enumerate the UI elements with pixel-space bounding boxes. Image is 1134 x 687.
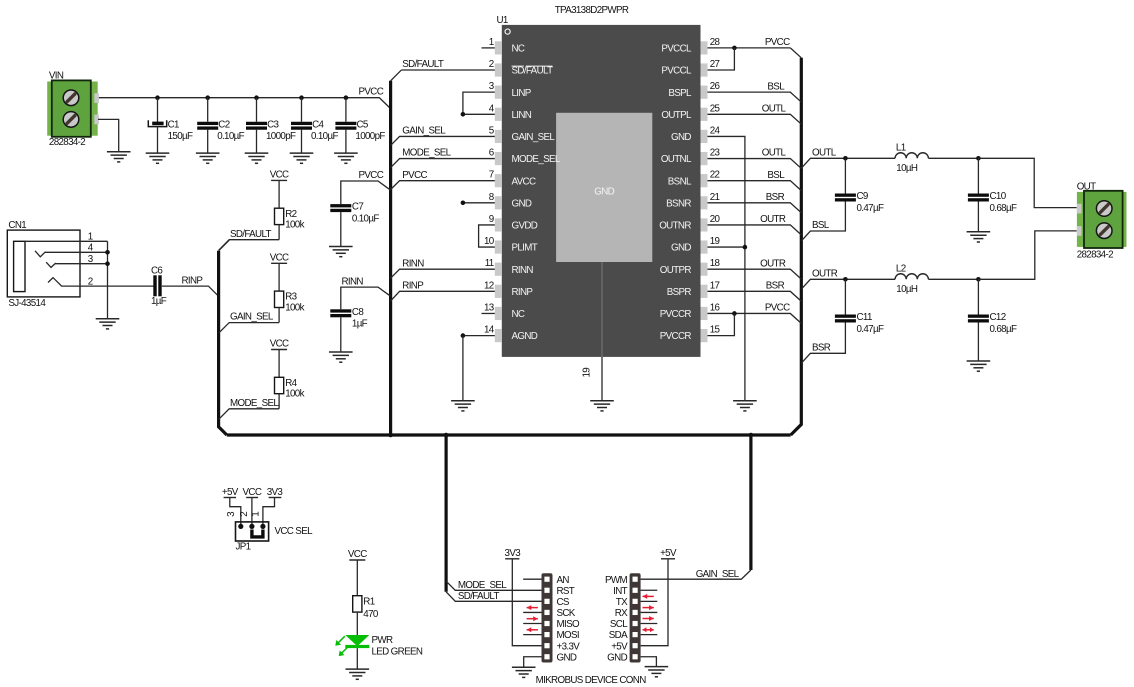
connector CN1 audio jack body (7, 230, 80, 297)
ground (right header) (645, 667, 669, 677)
svg-text:22: 22 (710, 170, 720, 181)
svg-text:VCC: VCC (270, 339, 289, 350)
capacitor C4 (291, 122, 312, 130)
wire GND pin8 (463, 202, 495, 204)
svg-text:C5: C5 (357, 119, 369, 130)
svg-text:C4: C4 (312, 119, 324, 130)
svg-text:OUTNL: OUTNL (661, 154, 692, 165)
U1 pin numbers (484, 37, 721, 336)
node pin8 junction (461, 201, 466, 206)
svg-text:3: 3 (489, 81, 495, 92)
svg-text:NC: NC (512, 309, 525, 320)
svg-text:8: 8 (489, 192, 495, 203)
C8 lower leg (340, 317, 342, 352)
R2 lower leg (278, 225, 280, 240)
wire PVCC pin16 to right bus (708, 313, 802, 323)
bus tap diagonal to PVCC pin28 (790, 48, 801, 58)
svg-text:R4: R4 (285, 378, 297, 389)
arrow TX (out) (643, 605, 654, 610)
connector OUT terminal block (1077, 191, 1127, 248)
svg-text:SD/FAULT: SD/FAULT (230, 229, 272, 240)
wire RINP from C6 to left bus (162, 286, 218, 296)
wire GAIN_SEL to left bus (219, 323, 280, 334)
node pin4 junction (461, 112, 466, 117)
resistor R3 100k (275, 291, 284, 307)
ground (LED) (346, 669, 370, 679)
svg-text:BSL: BSL (812, 220, 830, 231)
U1 pin13 NC stub wire (482, 312, 495, 314)
svg-text:C8: C8 (352, 307, 364, 318)
svg-text:10: 10 (484, 236, 495, 247)
svg-text:GND: GND (594, 187, 614, 198)
svg-text:PVCCL: PVCCL (661, 66, 692, 77)
svg-text:RX: RX (615, 608, 628, 619)
capacitor C12 0.68uF (968, 315, 989, 323)
svg-text:C3: C3 (267, 119, 279, 130)
svg-text:1: 1 (251, 512, 262, 517)
capacitor C5 (335, 122, 356, 130)
svg-text:GAIN_SEL: GAIN_SEL (402, 126, 446, 137)
U1 pad pin 19 wire (601, 262, 603, 401)
svg-text:OUTL: OUTL (762, 103, 787, 114)
svg-text:1000pF: 1000pF (266, 131, 296, 142)
svg-text:4: 4 (489, 103, 495, 114)
wire SD/FAULT to pin 2 (401, 69, 495, 71)
svg-text:1: 1 (489, 37, 494, 48)
svg-text:2: 2 (239, 512, 250, 517)
C7 labels (352, 202, 379, 225)
op-amp U1 body (502, 25, 701, 357)
svg-text:0.47µF: 0.47µF (857, 324, 884, 335)
power VCC (R4) (270, 339, 289, 350)
svg-text:19: 19 (582, 368, 593, 378)
node CN1 pins 4,3 junctions (105, 250, 110, 266)
svg-text:GND: GND (557, 652, 577, 663)
power +5V (JP1) (222, 487, 239, 498)
arrow MOSI (in) (527, 627, 538, 632)
svg-text:PVCC: PVCC (359, 170, 384, 181)
svg-text:MODE_SEL: MODE_SEL (230, 398, 279, 409)
VCC stem (R2) (278, 180, 280, 208)
svg-text:RINP: RINP (402, 280, 424, 291)
bus (middle vertical) (389, 81, 392, 435)
wire SDA stub (641, 634, 658, 636)
resistor R4 100k (275, 377, 284, 393)
svg-text:28: 28 (710, 37, 721, 48)
svg-text:12: 12 (484, 280, 494, 291)
C1 labels (168, 119, 193, 142)
svg-text:2: 2 (88, 277, 93, 288)
C5 labels (355, 119, 385, 142)
C9 labels (857, 191, 884, 214)
svg-text:BSPL: BSPL (668, 88, 692, 99)
wire left header GND to ground (524, 657, 542, 667)
svg-text:GND: GND (607, 652, 627, 663)
wire MISO stub (523, 623, 541, 625)
svg-text:BSR: BSR (766, 192, 785, 203)
capacitor C3 (246, 122, 267, 130)
capacitor C1 (electrolytic) (148, 98, 166, 153)
bus (bottom horizontal) (227, 433, 791, 436)
connector mikrobus left header (542, 573, 553, 662)
U1 pin1 NC stub wire (482, 47, 495, 49)
svg-text:BSNR: BSNR (666, 198, 691, 209)
svg-text:23: 23 (710, 148, 721, 159)
R3 lower leg (278, 308, 280, 323)
C12 labels (990, 312, 1017, 335)
R1 labels (363, 597, 379, 620)
svg-text:15: 15 (710, 325, 721, 336)
svg-text:C7: C7 (352, 202, 363, 213)
svg-text:NC: NC (512, 44, 525, 55)
wire SCL stub (641, 623, 658, 625)
svg-text:10µH: 10µH (896, 163, 918, 174)
svg-text:LED GREEN: LED GREEN (372, 647, 423, 658)
wire GND pin19 down to ground (708, 247, 745, 401)
svg-text:BSNL: BSNL (668, 176, 692, 187)
svg-text:BSPR: BSPR (667, 287, 692, 298)
svg-text:RINN: RINN (512, 265, 534, 276)
svg-text:MODE_SEL: MODE_SEL (458, 580, 507, 591)
svg-text:470: 470 (363, 609, 379, 620)
ground (C4) (290, 153, 314, 163)
svg-text:OUTPL: OUTPL (661, 110, 692, 121)
bus (right vertical) (791, 58, 802, 435)
CN1 pin 3 contact and wire (46, 262, 107, 267)
node pin28 junction (732, 46, 737, 51)
svg-text:100k: 100k (285, 302, 304, 313)
wire TX stub (641, 600, 658, 602)
svg-text:0.10µF: 0.10µF (217, 131, 244, 142)
CN1 pin 4 contact and wire (35, 251, 108, 257)
svg-text:19: 19 (710, 236, 720, 247)
wire PVCC from C7 to middle bus (341, 181, 391, 204)
wire LIN/GND vertical to ground (462, 336, 464, 401)
inductor L1 10uH (895, 153, 928, 159)
wire SD/FAULT to header CS (446, 592, 541, 602)
ground (VIN pin2) (107, 152, 131, 162)
svg-text:3: 3 (226, 511, 237, 517)
svg-text:R2: R2 (285, 209, 296, 220)
svg-text:AN: AN (557, 575, 570, 586)
svg-text:OUTR: OUTR (760, 214, 786, 225)
svg-text:R3: R3 (285, 292, 297, 303)
ground (C10) (967, 232, 991, 242)
JP1 jumper shunt (252, 530, 263, 537)
svg-text:+5V: +5V (222, 487, 239, 498)
svg-text:25: 25 (710, 103, 721, 114)
wire LINP pin3 to gnd line (463, 92, 495, 114)
U1 pin1 indicator circle (505, 29, 510, 34)
svg-text:C10: C10 (990, 191, 1007, 202)
capacitor C12 upper leg (977, 279, 979, 314)
capacitor C3 legs (256, 98, 258, 153)
wire OUTR from right bus through L2 to C12 (801, 279, 978, 289)
LED labels (372, 635, 423, 658)
capacitor C11 0.47uF (835, 315, 856, 323)
wire pin15 loop to pin16 (708, 313, 735, 335)
svg-text:14: 14 (484, 325, 495, 336)
arrow MISO (out) (527, 616, 538, 621)
svg-text:OUTL: OUTL (762, 148, 787, 159)
wire MODE_SEL to left bus (219, 409, 280, 420)
L1 labels (896, 143, 918, 175)
svg-text:INT: INT (613, 586, 627, 597)
CN1 pin 2 contact and wire to C6 (48, 278, 154, 287)
svg-text:VIN: VIN (49, 70, 64, 81)
svg-text:AGND: AGND (512, 331, 538, 342)
wire BSR from right bus to C11 (801, 323, 845, 364)
svg-text:26: 26 (710, 81, 721, 92)
wire BSR pin17 to right bus (708, 291, 802, 301)
svg-text:9: 9 (489, 214, 494, 225)
connector mikrobus right header (630, 573, 641, 662)
wire 3V3 to +3.3V pin (512, 559, 541, 646)
wire GAIN_SEL to header PWM (641, 570, 751, 579)
wire BSL from right bus to C9 (801, 202, 845, 241)
svg-text:100k: 100k (285, 220, 304, 231)
C7 lower leg (340, 212, 342, 246)
svg-text:MODE_SEL: MODE_SEL (512, 154, 561, 165)
node pin19 junction (743, 245, 748, 250)
wire PVCC to pin 7 (AVCC) (391, 181, 495, 190)
VIN pin2 ground wire (98, 119, 119, 151)
svg-text:+5V: +5V (660, 548, 677, 559)
wire +5V to header (641, 559, 668, 646)
JP1 pin dots (238, 524, 265, 529)
wire OUTL pin23 to right bus (708, 159, 802, 169)
svg-text:+5V: +5V (611, 641, 628, 652)
ground (C3) (245, 153, 269, 163)
U1 pin stubs (495, 41, 708, 342)
capacitor C6 (153, 275, 161, 296)
C10 lower leg (977, 202, 979, 232)
ground (C2) (196, 153, 220, 163)
svg-text:21: 21 (710, 192, 720, 203)
wire OUTL pin25 to right bus (708, 114, 802, 124)
svg-text:BSL: BSL (767, 170, 785, 181)
CN1 pin numbers (88, 232, 94, 288)
svg-text:RINN: RINN (402, 258, 424, 269)
power +5V (header) (660, 548, 677, 559)
svg-text:1µF: 1µF (352, 319, 368, 330)
svg-text:C1: C1 (168, 119, 179, 130)
inductor L2 10uH (895, 274, 928, 280)
svg-text:BSR: BSR (812, 342, 831, 353)
VIN power rail wire (98, 98, 391, 109)
capacitor C10 upper leg (977, 158, 979, 193)
svg-text:17: 17 (710, 280, 720, 291)
wire AGND pin14 (463, 335, 495, 337)
capacitor C5 legs (345, 98, 347, 153)
svg-text:R1: R1 (363, 597, 374, 608)
svg-text:PVCCL: PVCCL (661, 44, 692, 55)
C11 labels (857, 312, 884, 335)
wire OUTR pin18 to right bus (708, 269, 802, 279)
svg-text:OUTPR: OUTPR (660, 265, 692, 276)
wire JP1 pin1 to 3V3 (263, 498, 275, 527)
R1 upper leg (356, 560, 358, 596)
svg-text:SCL: SCL (610, 619, 628, 630)
LED cathode wire (356, 648, 358, 669)
svg-text:SD/FAULT: SD/FAULT (458, 591, 500, 602)
wire OUTR to OUT terminal pin2 (978, 231, 1076, 279)
node OUTL junctions (843, 156, 981, 161)
wire RINN to pin 11 (391, 269, 495, 278)
wire MODE_SEL to header RST (446, 581, 541, 590)
svg-text:VCC: VCC (270, 253, 289, 264)
LED PWR (green) (335, 635, 369, 656)
ground (U1 pins 24,19) (733, 401, 757, 411)
svg-text:1µF: 1µF (151, 296, 167, 307)
arrow INT (in) (643, 594, 654, 599)
svg-text:VCC: VCC (348, 549, 367, 560)
capacitor C9 0.47uF (835, 194, 856, 202)
wire AN stub (523, 578, 541, 580)
R3 labels (285, 292, 304, 314)
R4 lower leg (278, 394, 280, 409)
bus tap diagonal to SD/FAULT (219, 240, 230, 251)
capacitor C10 0.68uF (968, 194, 989, 202)
wire pin27 loop to pin28 (708, 48, 735, 70)
svg-text:0.68µF: 0.68µF (990, 203, 1017, 214)
JP1 pin numbers (rotated) (226, 511, 261, 517)
svg-text:PVCC: PVCC (402, 170, 427, 181)
ground (C8) (329, 352, 353, 362)
svg-text:0.47µF: 0.47µF (857, 203, 884, 214)
ground (U1 pad) (590, 401, 614, 411)
svg-text:SD/FAULT: SD/FAULT (512, 66, 554, 77)
C2 labels (217, 119, 244, 142)
svg-text:PLIMT: PLIMT (512, 243, 538, 254)
wire PVCC pin28 to right bus (708, 47, 791, 49)
U1 thermal pad GND (556, 113, 652, 262)
svg-text:TPA3138D2PWPR: TPA3138D2PWPR (555, 5, 629, 16)
R4 labels (285, 378, 304, 400)
svg-text:BSL: BSL (767, 81, 785, 92)
svg-text:20: 20 (710, 214, 721, 225)
svg-text:RINP: RINP (182, 275, 204, 286)
jumper JP1 body (236, 522, 269, 541)
svg-text:PVCCR: PVCCR (660, 331, 692, 342)
svg-text:GND: GND (671, 243, 691, 254)
bus (left vertical) (219, 251, 227, 435)
wire MOSI stub (523, 634, 541, 636)
svg-text:11: 11 (485, 258, 494, 269)
capacitor C7 (330, 204, 351, 212)
svg-text:2: 2 (489, 59, 494, 70)
svg-text:OUTR: OUTR (812, 268, 838, 279)
svg-text:6: 6 (489, 148, 495, 159)
wire JP1 pin2 to VCC (251, 498, 253, 527)
svg-text:OUT: OUT (1077, 181, 1096, 192)
wire OUTL from right bus through L1 to C10 (801, 158, 978, 168)
wire OUTL to OUT terminal pin1 (978, 158, 1076, 207)
svg-text:SD/FAULT: SD/FAULT (402, 59, 444, 70)
wire INT stub (641, 589, 658, 591)
left header pin labels (557, 575, 581, 664)
right header pin labels (605, 575, 628, 664)
wire GVDD pin9 to PLIMT pin10 bracket (479, 225, 495, 247)
ground (C1) (146, 153, 170, 163)
svg-text:AVCC: AVCC (512, 176, 536, 187)
wire SCK stub (523, 611, 541, 613)
svg-text:3V3: 3V3 (267, 487, 284, 498)
svg-text:13: 13 (484, 302, 495, 313)
wire OUTR pin20 to right bus (708, 225, 802, 235)
wire GAIN_SEL to pin 5 (391, 136, 495, 145)
power VCC (R2) (270, 170, 289, 181)
C12 lower leg (977, 323, 979, 362)
VCC stem (R4) (278, 350, 280, 378)
svg-text:7: 7 (489, 170, 494, 181)
wire GND pin24 down (708, 136, 745, 247)
power VCC (JP1) (243, 487, 262, 498)
svg-text:RINN: RINN (342, 276, 364, 287)
node OUTR junctions (843, 277, 981, 282)
wire GAIN_SEL bus drop (749, 435, 752, 570)
svg-text:GND: GND (671, 132, 691, 143)
wire RINN from C8 to middle bus (341, 287, 391, 309)
svg-text:MIKROBUS DEVICE CONN: MIKROBUS DEVICE CONN (536, 675, 647, 686)
capacitor C11 upper leg (844, 279, 846, 314)
arrow RX (out) (643, 616, 654, 621)
C6 labels (151, 266, 167, 307)
wire SD/FAULT to left bus (219, 240, 280, 251)
wire RX stub (641, 611, 658, 613)
wire BSR pin21 to right bus (708, 203, 802, 213)
svg-text:TX: TX (616, 597, 628, 608)
power 3V3 (JP1) (267, 487, 284, 498)
svg-text:MOSI: MOSI (557, 630, 579, 641)
R1 to LED wire (356, 612, 358, 635)
CN1 ground bus wire (107, 241, 109, 318)
svg-text:GAIN_SEL: GAIN_SEL (230, 312, 274, 323)
svg-text:282834-2: 282834-2 (1077, 250, 1113, 261)
wire BSL pin22 to right bus (708, 181, 802, 191)
C3 labels (266, 119, 296, 142)
svg-text:PVCC: PVCC (765, 303, 790, 314)
ground (C12) (967, 361, 991, 371)
svg-text:24: 24 (710, 125, 721, 136)
resistor R1 470 (353, 596, 362, 612)
ground (left header) (512, 667, 536, 677)
svg-text:0.10µF: 0.10µF (311, 131, 338, 142)
svg-text:PWM: PWM (605, 575, 627, 586)
capacitor C2 legs (207, 98, 209, 153)
svg-text:1: 1 (88, 232, 93, 243)
capacitor C9 upper leg (844, 158, 846, 193)
svg-text:3V3: 3V3 (505, 548, 522, 559)
svg-text:+3.3V: +3.3V (557, 641, 581, 652)
capacitor C2 (197, 122, 218, 130)
node pin16 junction (732, 311, 737, 316)
svg-text:18: 18 (710, 258, 721, 269)
svg-text:BSR: BSR (766, 280, 785, 291)
arrow SCL (bidir) (643, 627, 654, 632)
U1 pin names (512, 44, 693, 343)
svg-text:GVDD: GVDD (512, 221, 538, 232)
C8 labels (352, 307, 368, 330)
wire BSL pin26 to right bus (708, 92, 802, 102)
svg-text:GAIN_SEL: GAIN_SEL (512, 132, 556, 143)
ground (C7) (329, 247, 353, 257)
svg-text:LINP: LINP (512, 88, 532, 99)
svg-text:0.10µF: 0.10µF (352, 213, 379, 224)
svg-text:150µF: 150µF (168, 131, 193, 142)
capacitor C4 legs (301, 98, 303, 153)
svg-text:GND: GND (512, 198, 532, 209)
